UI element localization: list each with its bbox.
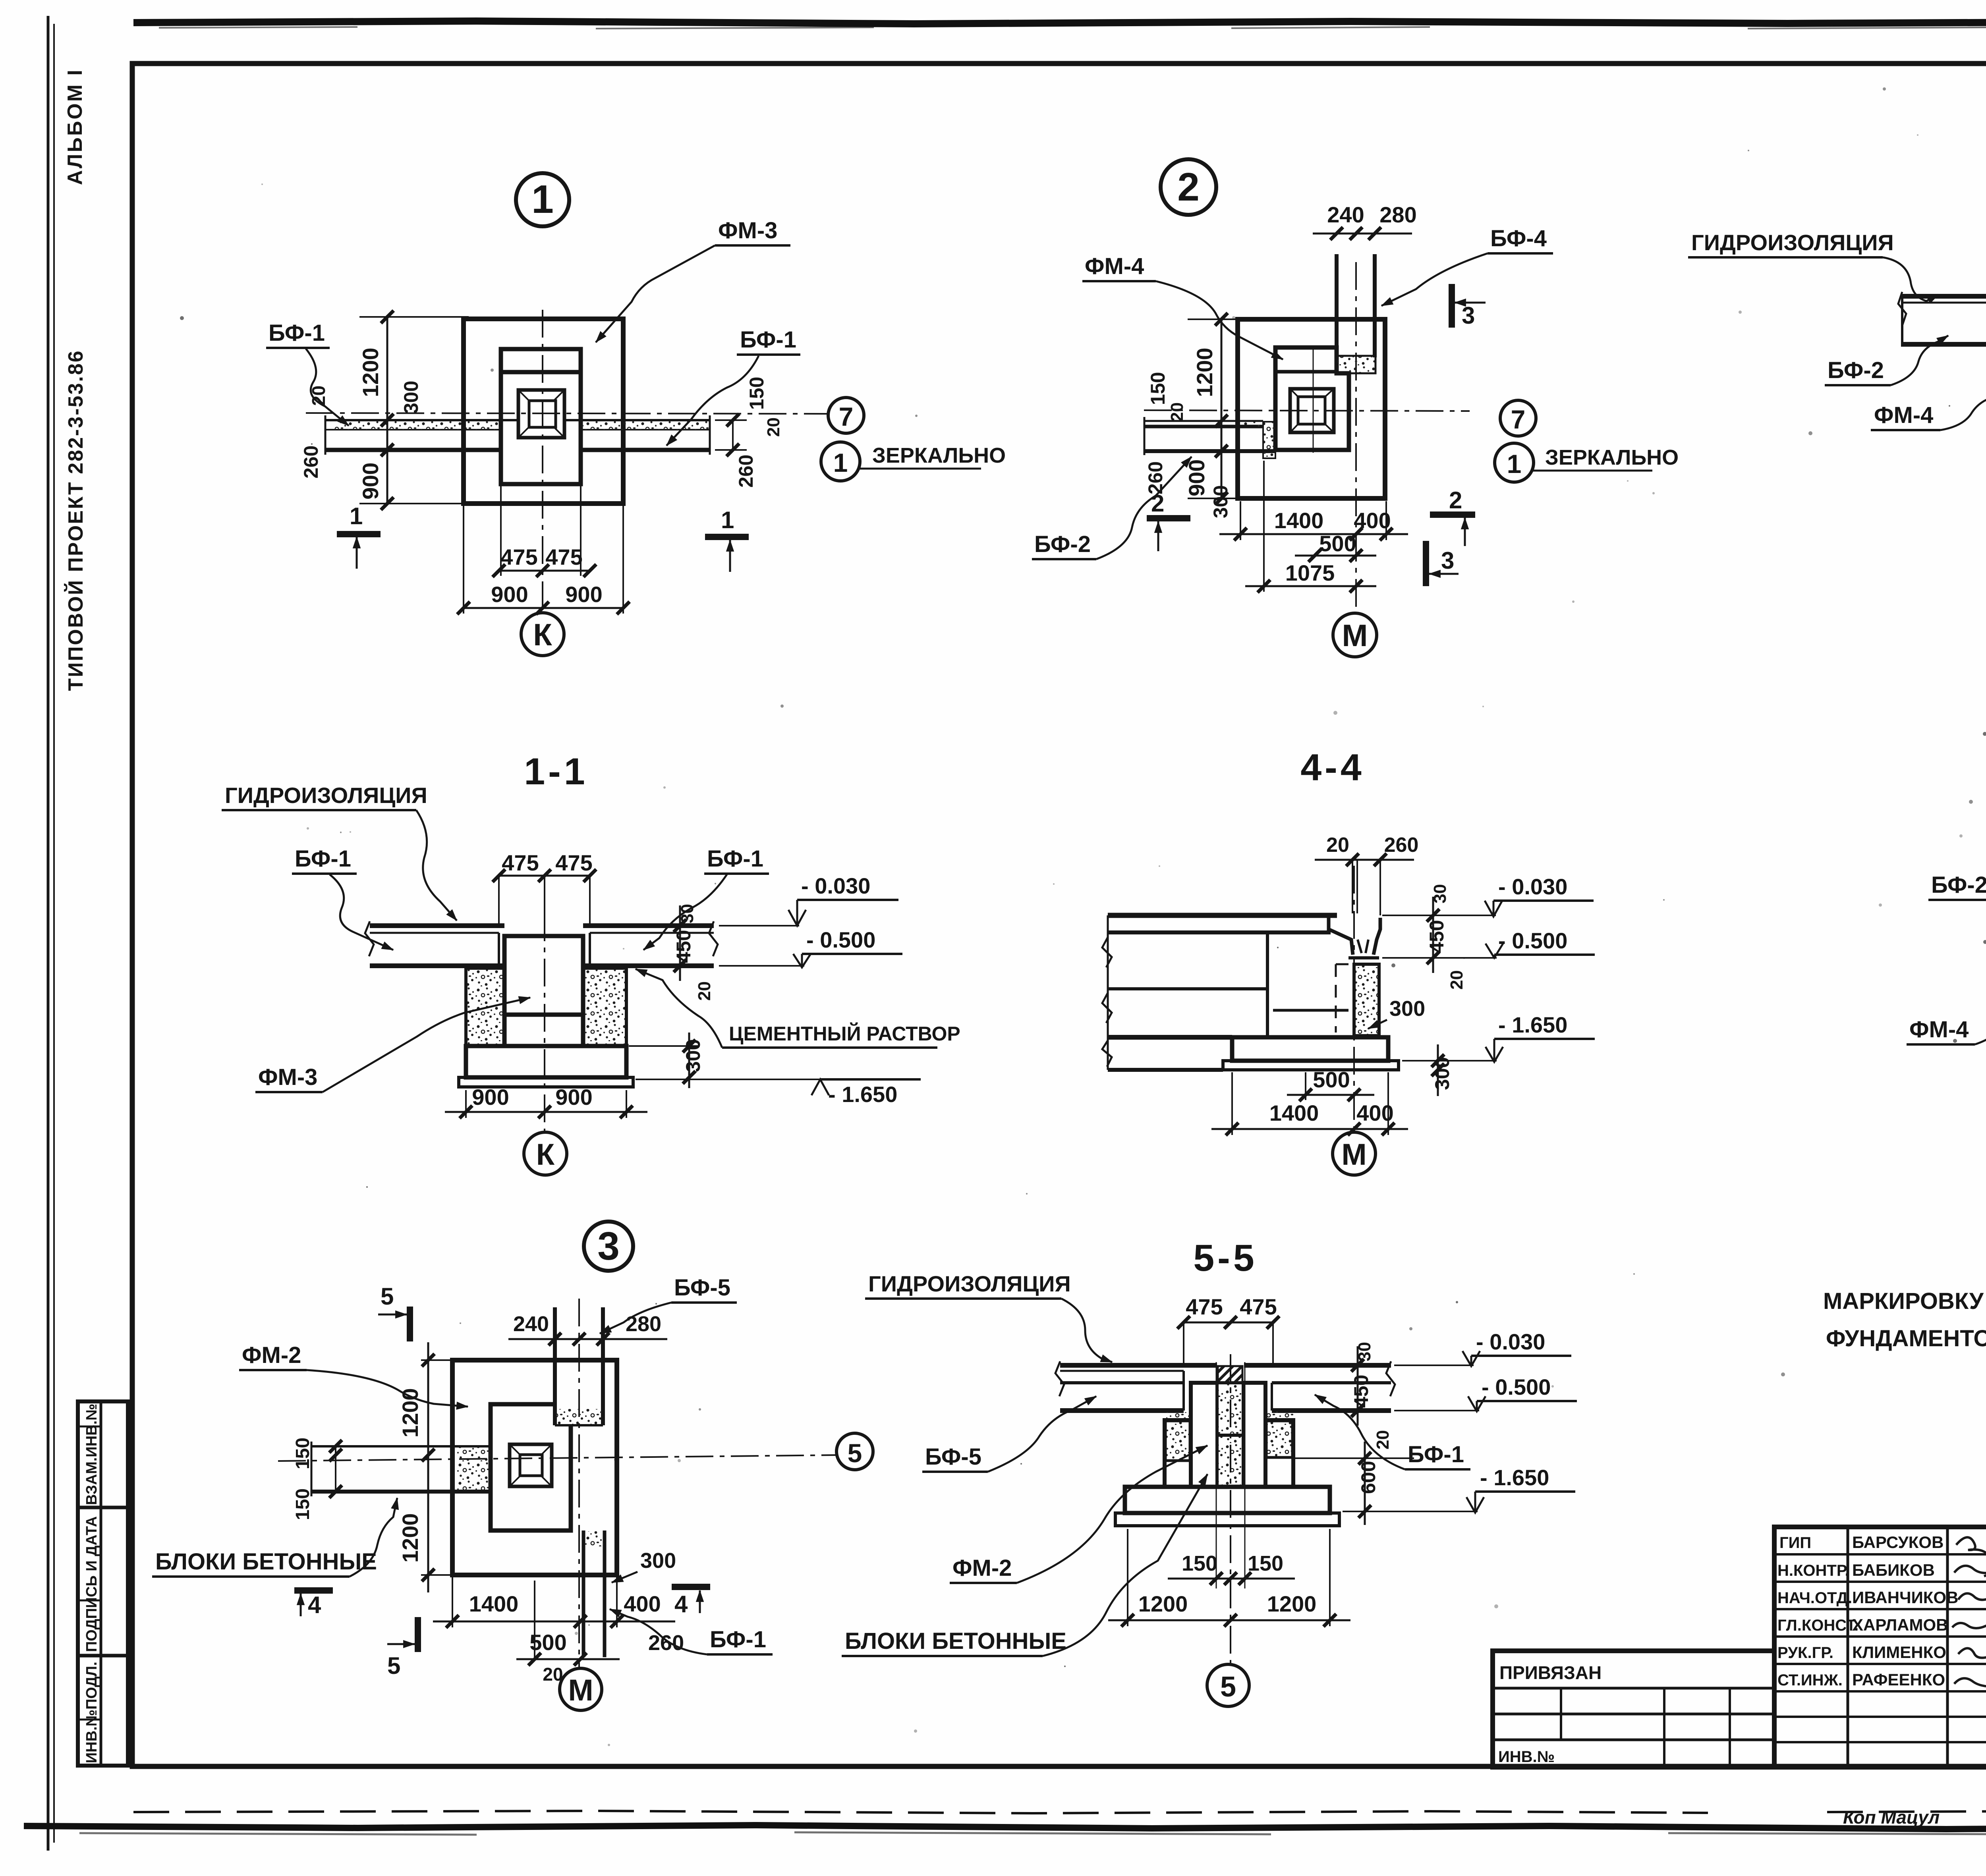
view 2 bottom dim 1075 — [1285, 560, 1335, 585]
section 5-5 label БФ-1 — [1315, 1395, 1470, 1469]
section 4-4 bottom dim 500 — [1287, 1067, 1374, 1100]
section 1-1 bottom dim line — [445, 1090, 647, 1118]
svg-text:300: 300 — [1209, 485, 1232, 518]
view 2 top dim line — [1313, 233, 1412, 235]
view 2 inner plate — [1275, 347, 1349, 450]
svg-text:БФ-2: БФ-2 — [1034, 531, 1091, 557]
svg-text:7: 7 — [839, 402, 854, 431]
svg-text:475: 475 — [1186, 1294, 1223, 1319]
section 5-5 axis bubble 5 — [1207, 1664, 1249, 1706]
section 2-2 label БФ-2 — [1825, 336, 1948, 385]
view 2 bottom dim line 1400 — [1219, 501, 1408, 540]
sidebar stamp text Взам.инв.№ — [83, 1403, 100, 1505]
svg-text:2: 2 — [1449, 487, 1462, 513]
svg-text:- 1.650: - 1.650 — [828, 1082, 897, 1107]
коп label — [1843, 1807, 1940, 1828]
svg-text:БФ-5: БФ-5 — [674, 1275, 730, 1301]
view 2 section mark 3 bottom right — [1426, 541, 1459, 586]
view 3 inner plate — [491, 1404, 571, 1531]
view 2 dim text 300 — [1209, 485, 1232, 518]
view 3 label БФ-5 — [600, 1275, 737, 1334]
view 3 wall dim line — [335, 1446, 336, 1492]
svg-text:1400: 1400 — [469, 1591, 519, 1616]
svg-text:240: 240 — [1327, 202, 1364, 227]
view 2 text зеркально — [1545, 446, 1679, 469]
view 1 bottom dims 475 475 — [500, 544, 582, 569]
привязан box — [1493, 1651, 1774, 1767]
svg-text:1-1: 1-1 — [524, 751, 588, 793]
view 1 column section — [518, 390, 564, 438]
svg-text:900: 900 — [472, 1085, 509, 1110]
svg-text:- 0.030: - 0.030 — [1498, 874, 1567, 899]
view 2 axis bubble M — [1333, 613, 1377, 657]
view 3 label ФМ-2 — [239, 1342, 468, 1407]
svg-text:475: 475 — [555, 850, 592, 875]
view 2 bubble — [1161, 159, 1216, 215]
view 2 axis M vertical — [1355, 262, 1357, 613]
section 5-5 label гидроизоляция — [865, 1271, 1112, 1362]
svg-text:СТ.ИНЖ.: СТ.ИНЖ. — [1777, 1671, 1843, 1689]
svg-text:1400: 1400 — [1269, 1100, 1319, 1125]
svg-text:БФ-1: БФ-1 — [269, 320, 325, 346]
svg-text:600: 600 — [1357, 1461, 1379, 1494]
view 3 axis bubble M — [560, 1668, 602, 1710]
view 2 bottom dim line 1075 — [1245, 461, 1376, 592]
sidebar stamp box — [78, 1401, 128, 1766]
section 4-4 dim line 450 — [1432, 897, 1434, 973]
svg-text:400: 400 — [624, 1591, 661, 1616]
svg-text:ЗЕРКАЛЬНО: ЗЕРКАЛЬНО — [1545, 446, 1679, 469]
view 2 dim text 1200 — [1192, 347, 1217, 397]
svg-text:БФ-1: БФ-1 — [707, 846, 763, 872]
svg-text:2: 2 — [1177, 165, 1200, 209]
section 1-1 dim 30 450 20 — [672, 904, 714, 1001]
svg-text:260: 260 — [648, 1631, 684, 1655]
svg-text:1200: 1200 — [358, 347, 383, 397]
section 1-1 centerline — [544, 913, 545, 1132]
svg-text:260: 260 — [300, 446, 322, 479]
svg-text:БАРСУКОВ: БАРСУКОВ — [1852, 1533, 1943, 1552]
section 4-4 level -0.500 — [1382, 928, 1595, 958]
svg-text:500: 500 — [1319, 531, 1356, 556]
view 3 bottom dim line 500 — [516, 1581, 620, 1659]
svg-text:280: 280 — [1379, 202, 1416, 227]
title block signatures scribbles — [1952, 1537, 1986, 1687]
view 3 outer footing rect — [452, 1360, 617, 1575]
section 1-1 top dim line — [499, 876, 590, 923]
view 2 column centerline vertical — [1313, 345, 1314, 453]
view 3 top strip БФ-5 — [555, 1307, 603, 1425]
view 2 right axis bubbles 7 1 — [1495, 400, 1652, 482]
svg-text:ФМ-3: ФМ-3 — [258, 1064, 317, 1090]
section 5-5 bottom dim 150 150 — [1182, 1552, 1283, 1575]
svg-text:- 0.500: - 0.500 — [1498, 928, 1567, 953]
section 4-4 level -0.030 — [1382, 874, 1594, 917]
svg-text:260: 260 — [1384, 834, 1419, 857]
svg-text:БЛОКИ БЕТОННЫЕ: БЛОКИ БЕТОННЫЕ — [155, 1549, 377, 1575]
svg-text:БФ-1: БФ-1 — [295, 846, 351, 872]
view 1 outer footing rect — [464, 319, 623, 504]
section 1-1 dim line 450 — [679, 905, 681, 981]
svg-text:БФ-2: БФ-2 — [1931, 872, 1986, 898]
svg-text:475: 475 — [502, 850, 539, 875]
svg-text:150: 150 — [1248, 1552, 1283, 1575]
view 1 left wall — [325, 415, 518, 455]
sheet left border double line — [48, 16, 54, 1851]
view 2 column section — [1290, 389, 1334, 432]
svg-text:5: 5 — [387, 1652, 400, 1679]
section 1-1 label цементный раствор — [636, 969, 960, 1048]
svg-text:900: 900 — [1184, 459, 1209, 496]
view 1 bottom dim line 475 — [499, 486, 590, 576]
view 2 column axis horizontal — [1144, 410, 1470, 411]
svg-text:ЗЕРКАЛЬНО: ЗЕРКАЛЬНО — [872, 444, 1006, 467]
svg-text:- 0.030: - 0.030 — [801, 873, 870, 898]
svg-text:150: 150 — [292, 1438, 313, 1469]
svg-text:ФМ-3: ФМ-3 — [718, 218, 777, 243]
view 3 wall axis horizontal — [278, 1455, 837, 1461]
svg-text:260: 260 — [1144, 461, 1167, 494]
view 3 dim 1200 upper — [398, 1388, 423, 1438]
svg-text:ТИПОВОЙ ПРОЕКТ 282-3-53.86: ТИПОВОЙ ПРОЕКТ 282-3-53.86 — [64, 349, 87, 691]
view 1 centerline vertical axis K — [542, 310, 543, 612]
svg-text:1200: 1200 — [398, 1388, 423, 1438]
section 1-1 title — [524, 751, 588, 793]
section 4-4 footing — [1223, 1037, 1399, 1070]
section 1-1 bottom dim 900 900 — [472, 1085, 592, 1110]
section 2-2 floor slab left — [1898, 292, 1986, 350]
svg-text:ЦЕМЕНТНЫЙ РАСТВОР: ЦЕМЕНТНЫЙ РАСТВОР — [729, 1022, 960, 1045]
view 2 plate notch mortar speckle — [1337, 356, 1376, 373]
svg-text:5: 5 — [1220, 1671, 1236, 1703]
svg-text:1200: 1200 — [398, 1513, 423, 1563]
section 1-1 label ФМ-3 — [255, 998, 530, 1092]
svg-text:1200: 1200 — [1267, 1591, 1317, 1616]
svg-text:БФ-5: БФ-5 — [925, 1444, 981, 1470]
svg-text:150: 150 — [292, 1488, 313, 1520]
svg-text:300: 300 — [682, 1039, 704, 1072]
section 5-5 footing — [1115, 1487, 1339, 1526]
view 2 dim text 900 — [1184, 459, 1209, 496]
svg-text:ФУНДАМЕНТОВ СМ. ЛИСТ 4.: ФУНДАМЕНТОВ СМ. ЛИСТ 4. — [1826, 1326, 1986, 1351]
view 2 bottom dim 500 — [1319, 531, 1356, 556]
svg-text:ГИДРОИЗОЛЯЦИЯ: ГИДРОИЗОЛЯЦИЯ — [225, 783, 427, 808]
привязан text — [1499, 1662, 1602, 1683]
svg-text:20: 20 — [695, 981, 714, 1001]
section 1-1 level -0.500 — [719, 927, 902, 967]
svg-text:- 0.030: - 0.030 — [1476, 1329, 1545, 1354]
svg-text:МАРКИРОВКУ УЗЛОВ НА СХЕМЕ: МАРКИРОВКУ УЗЛОВ НА СХЕМЕ РАСПОЛОЖЕНИЯ — [1823, 1288, 1986, 1314]
svg-text:500: 500 — [1313, 1067, 1350, 1092]
section 5-5 bottom dim 1200 1200 — [1138, 1591, 1317, 1616]
svg-text:4: 4 — [674, 1591, 688, 1617]
section 1-1 dim 300 — [629, 1033, 704, 1088]
section 3-3 label ФМ-4 — [1907, 986, 1986, 1044]
svg-text:150: 150 — [1182, 1552, 1217, 1575]
view 2 left wall — [1144, 417, 1275, 458]
svg-text:5: 5 — [848, 1438, 862, 1468]
section 4-4 axis bubble M — [1333, 1132, 1376, 1175]
svg-text:НАЧ.ОТД.: НАЧ.ОТД. — [1777, 1589, 1852, 1607]
section 1-1 label гидроизоляция — [222, 783, 457, 921]
section 5-5 centerline — [1216, 1354, 1245, 1664]
section 5-5 label ФМ-2 — [950, 1446, 1207, 1583]
view 3 bottom dim 260 — [648, 1631, 684, 1655]
svg-text:1200: 1200 — [1138, 1591, 1188, 1616]
section 1-1 pedestal — [504, 936, 583, 1046]
svg-text:3: 3 — [1441, 547, 1454, 574]
svg-text:240: 240 — [513, 1312, 549, 1336]
section 1-1 floor slab left — [365, 921, 504, 966]
section 5-5 label блоки бетонные — [842, 1474, 1207, 1656]
svg-text:450: 450 — [672, 930, 695, 963]
svg-text:ИВАНЧИКОВ: ИВАНЧИКОВ — [1852, 1588, 1958, 1607]
view 2 dim text 20 — [1167, 402, 1187, 422]
view 3 centerline vertical — [578, 1299, 580, 1668]
svg-text:450: 450 — [1426, 920, 1448, 953]
svg-text:БФ-1: БФ-1 — [710, 1627, 766, 1652]
section 4-4 bottom dim line — [1211, 1072, 1408, 1135]
svg-text:1: 1 — [721, 507, 734, 533]
section 5-5 title — [1193, 1237, 1257, 1279]
svg-text:4-4: 4-4 — [1300, 747, 1364, 789]
svg-text:РАФЕЕНКО: РАФЕЕНКО — [1852, 1670, 1945, 1689]
view 1 label БФ-1 left — [266, 320, 349, 426]
view 3 left wall — [311, 1442, 491, 1496]
section 5-5 right outer speckle — [1266, 1421, 1292, 1457]
view 3 section mark 5 top — [378, 1283, 410, 1341]
view 3 section mark 5 bottom — [387, 1617, 418, 1679]
section 5-5 bottom dim line 150 — [1168, 1578, 1295, 1580]
svg-text:Н.КОНТР.: Н.КОНТР. — [1777, 1562, 1849, 1579]
view 3 column section — [510, 1444, 552, 1486]
section 2-2 label ФМ-4 — [1871, 387, 1986, 430]
section 5-5 level -0.500 — [1394, 1374, 1577, 1411]
view 2 dim text 150 — [1147, 372, 1169, 405]
svg-text:БФ-1: БФ-1 — [1408, 1442, 1464, 1467]
section 4-4 hidden dashed — [1336, 964, 1354, 1033]
svg-text:900: 900 — [555, 1085, 592, 1110]
svg-text:ИНВ.№ПОДЛ.: ИНВ.№ПОДЛ. — [83, 1662, 100, 1763]
section 1-1 right concrete block — [583, 968, 626, 1046]
svg-text:БАБИКОВ: БАБИКОВ — [1852, 1561, 1935, 1579]
svg-text:475: 475 — [1240, 1294, 1277, 1319]
view 2 section mark 2 bottom left — [1147, 490, 1190, 551]
section 5-5 dim 30 450 20 — [1350, 1342, 1393, 1449]
svg-text:2: 2 — [1151, 490, 1164, 517]
svg-text:1400: 1400 — [1274, 508, 1324, 533]
sidebar text ТИПОВОЙ ПРОЕКТ 282-3-53.86 — [64, 349, 87, 691]
section 4-4 level -1.650 — [1402, 1012, 1595, 1062]
svg-text:7: 7 — [1511, 405, 1526, 434]
svg-text:ФМ-2: ФМ-2 — [242, 1342, 301, 1368]
view 2 bottom dim 1400 400 — [1274, 508, 1391, 533]
section 1-1 level -1.650 — [636, 1079, 921, 1107]
svg-text:БФ-4: БФ-4 — [1490, 226, 1547, 251]
section 1-1 top dim 475 475 — [502, 850, 592, 875]
svg-text:260: 260 — [735, 455, 757, 488]
view 1 dim text 20 right — [764, 417, 783, 437]
section 1-1 label БФ-1 left — [292, 846, 393, 950]
svg-text:5: 5 — [381, 1283, 394, 1310]
svg-text:20: 20 — [1326, 834, 1349, 857]
section 4-4 title — [1300, 747, 1364, 789]
svg-text:- 0.500: - 0.500 — [1482, 1374, 1551, 1399]
svg-text:БФ-2: БФ-2 — [1828, 357, 1884, 383]
section 4-4 dim 30 450 20 — [1426, 884, 1466, 990]
view 3 bottom dim 1400 400 — [469, 1591, 661, 1616]
svg-text:- 1.650: - 1.650 — [1480, 1465, 1549, 1490]
svg-text:ВЗАМ.ИНВ.№: ВЗАМ.ИНВ.№ — [83, 1403, 100, 1505]
svg-text:1075: 1075 — [1285, 560, 1335, 585]
section 5-5 left outer speckle — [1165, 1421, 1190, 1461]
section 5-5 level -1.650 — [1343, 1465, 1575, 1513]
view 1 text зеркально — [872, 444, 1006, 467]
section 3-3 label БФ-2 — [1928, 872, 1986, 930]
svg-text:ИНВ.№: ИНВ.№ — [1498, 1748, 1555, 1766]
view 3 label 300 — [612, 1549, 676, 1583]
section 1-1 axis bubble K — [524, 1132, 567, 1175]
view 1 axis bubble K — [521, 613, 564, 656]
view 1 section mark 1 left — [337, 503, 381, 569]
section 5-5 top dim 475 475 — [1186, 1294, 1277, 1319]
svg-text:475: 475 — [545, 544, 582, 569]
view 1 bottom dim line 900 — [464, 506, 623, 614]
note text — [1823, 1288, 1986, 1351]
svg-text:475: 475 — [500, 544, 537, 569]
view 2 label БФ-4 — [1381, 226, 1553, 306]
svg-text:ХАРЛАМОВ: ХАРЛАМОВ — [1852, 1615, 1948, 1634]
view 3 section mark 4 left — [294, 1590, 333, 1618]
svg-text:450: 450 — [1350, 1375, 1372, 1408]
svg-text:300: 300 — [400, 381, 422, 414]
view 3 bottom dim 500 20 — [529, 1630, 566, 1685]
view 3 top dim 240 280 — [513, 1312, 661, 1336]
view 3 wall dim 150 150 — [292, 1438, 313, 1520]
svg-text:КЛИМЕНКО: КЛИМЕНКО — [1852, 1643, 1946, 1662]
section 5-5 central concrete column — [1217, 1383, 1243, 1487]
section 4-4 concrete column — [1354, 964, 1379, 1036]
view 2 outer footing rect — [1238, 319, 1385, 498]
svg-text:20: 20 — [1373, 1430, 1393, 1449]
svg-text:ФМ-4: ФМ-4 — [1085, 253, 1144, 279]
svg-text:20: 20 — [1167, 402, 1187, 422]
view 1 bubble — [516, 173, 569, 226]
svg-text:1: 1 — [531, 177, 554, 222]
svg-text:ФМ-4: ФМ-4 — [1909, 1017, 1969, 1042]
view 1 bottom dims 900 900 — [491, 582, 602, 607]
svg-text:300: 300 — [1389, 997, 1425, 1021]
section 4-4 T block — [1329, 918, 1380, 958]
section 1-1 left concrete block — [466, 968, 504, 1046]
section 5-5 dim 600 — [1295, 1442, 1414, 1525]
svg-text:ГИДРОИЗОЛЯЦИЯ: ГИДРОИЗОЛЯЦИЯ — [1691, 230, 1894, 255]
view 1 dim text 260 right — [735, 455, 757, 488]
view 1 dim text 20 left — [308, 386, 329, 406]
svg-text:4: 4 — [308, 1592, 321, 1618]
svg-text:К: К — [536, 1138, 555, 1172]
section 5-5 floor slab right — [1244, 1361, 1395, 1411]
svg-text:150: 150 — [746, 377, 768, 410]
view 3 dim 1200 lower — [398, 1513, 423, 1563]
view 1 label ФМ-3 — [596, 218, 790, 342]
view 3 section mark 4 right — [672, 1587, 710, 1617]
title block signature table frame — [1774, 1527, 1986, 1767]
sidebar text АЛЬБОМ I — [64, 68, 87, 185]
section 5-5 left block — [1165, 1383, 1217, 1487]
view 1 right small dim line — [715, 420, 747, 450]
section 1-1 label БФ-1 right — [643, 846, 769, 950]
view 1 dim text 300 — [400, 381, 422, 414]
svg-text:ГЛ.КОНСТ.: ГЛ.КОНСТ. — [1777, 1617, 1858, 1634]
инв номер text — [1498, 1748, 1555, 1766]
svg-text:ФМ-4: ФМ-4 — [1874, 402, 1933, 428]
section 4-4 top dim 20 260 — [1326, 834, 1418, 857]
svg-text:Коп Мацул: Коп Мацул — [1843, 1807, 1940, 1828]
svg-text:К: К — [533, 617, 552, 652]
svg-text:900: 900 — [358, 463, 383, 500]
section 5-5 label БФ-5 — [922, 1396, 1096, 1472]
view 2 label ФМ-4 — [1082, 253, 1283, 359]
view 3 label БФ-1 — [610, 1609, 773, 1654]
view 3 left dim line — [421, 1342, 457, 1592]
view 3 bottom dim line — [433, 1577, 675, 1627]
view 1 dim text 260 left — [300, 446, 322, 479]
svg-text:300: 300 — [640, 1549, 676, 1573]
section 5-5 floor slab left — [1055, 1361, 1217, 1411]
view 2 label БФ-2 — [1032, 457, 1192, 559]
section 1-1 footing — [459, 1046, 633, 1087]
view 2 bottom dim line 500 — [1295, 555, 1376, 557]
svg-text:БЛОКИ БЕТОННЫЕ: БЛОКИ БЕТОННЫЕ — [845, 1628, 1066, 1654]
section 1-1 level -0.030 — [719, 873, 898, 926]
svg-text:150: 150 — [1147, 372, 1169, 405]
section 4-4 label 300 — [1368, 997, 1425, 1029]
section 2-2 label гидроизоляция — [1688, 230, 1938, 301]
view 1 left vertical dim line — [330, 317, 469, 504]
section 4-4 top dim line — [1315, 860, 1414, 915]
svg-text:400: 400 — [1354, 508, 1391, 533]
view 3 label блоки бетонные — [152, 1498, 397, 1577]
view 2 top wall strip БФ-4 — [1337, 254, 1375, 357]
svg-text:280: 280 — [626, 1312, 661, 1336]
section 5-5 central hatched monolith — [1218, 1366, 1242, 1383]
svg-text:300: 300 — [1431, 1057, 1453, 1090]
svg-text:М: М — [1342, 618, 1368, 653]
view 2 top dim 240 280 — [1327, 202, 1416, 227]
view 2 left vertical dim line — [1188, 319, 1235, 498]
svg-text:АЛЬБОМ I: АЛЬБОМ I — [64, 68, 87, 185]
svg-text:ПРИВЯЗАН: ПРИВЯЗАН — [1499, 1662, 1602, 1683]
svg-text:1: 1 — [833, 448, 848, 477]
view 3 bottom strip БФ-1 — [583, 1531, 605, 1657]
sidebar stamp text Инв.№подл. — [83, 1662, 100, 1763]
sidebar stamp text Подпись и дата — [83, 1516, 100, 1652]
view 1 right wall — [564, 415, 710, 455]
sheet top ragged line — [133, 21, 1986, 29]
title block signature roles — [1777, 1533, 1958, 1689]
svg-text:ГИП: ГИП — [1779, 1534, 1811, 1552]
svg-text:900: 900 — [565, 582, 602, 607]
svg-text:ПОДПИСЬ И ДАТА: ПОДПИСЬ И ДАТА — [83, 1516, 100, 1652]
svg-text:1: 1 — [1507, 449, 1522, 479]
svg-text:3: 3 — [1462, 302, 1475, 329]
svg-text:ФМ-2: ФМ-2 — [952, 1555, 1012, 1581]
svg-text:20: 20 — [1447, 970, 1466, 990]
section 5-5 dim line 450 — [1357, 1346, 1359, 1426]
section 5-5 mortar speckle strips — [1166, 1411, 1293, 1420]
view 1 label БФ-1 right — [667, 327, 800, 446]
